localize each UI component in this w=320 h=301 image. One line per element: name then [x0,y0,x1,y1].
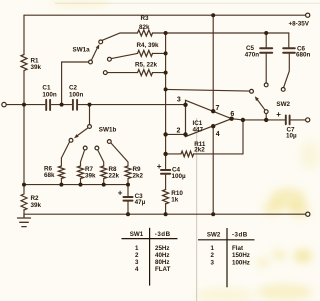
terminal +8-35V [306,13,310,17]
wire C6 bottom lead to SW2 contact [284,54,290,88]
svg-text:C2: C2 [69,85,78,92]
svg-text:100n: 100n [69,92,84,99]
node SW2 / output [264,118,268,122]
svg-text:22k: 22k [109,172,120,179]
svg-text:100µ: 100µ [172,173,187,180]
wire R1 to input line [23,71,25,105]
capacitor C4 100u top lead [165,154,167,169]
svg-text:SW1: SW1 [130,231,144,238]
node R4 / bus [164,51,168,55]
SW1b contact 1 [69,138,73,142]
node rail / R10 [164,212,168,216]
wire R7 bottom lead [80,179,82,185]
wire R6 bottom lead [60,179,62,185]
resistor R4 39k [138,50,153,56]
node pin2 [183,132,187,136]
capacitor C6 680n plates [283,48,295,53]
svg-text:2k2: 2k2 [133,172,144,179]
wire SW1b contact1 to R6 [61,142,69,166]
node input / R1 [22,103,26,107]
terminal output [306,118,310,122]
wire R9 bottom lead [127,179,129,185]
svg-text:100n: 100n [42,92,57,99]
svg-text:C1: C1 [42,85,51,92]
svg-text:R5, 22k: R5, 22k [135,61,158,68]
wire R11 feedback leads [166,120,243,154]
capacitor C3 47u top lead [127,185,129,196]
svg-text:R4, 39k: R4, 39k [137,42,160,49]
svg-text:3: 3 [135,259,139,266]
SW1b contact 2 [83,146,87,150]
svg-text:10µ: 10µ [286,133,297,140]
scan crease (faint vertical line) [196,118,198,301]
node input / SW1a [60,103,64,107]
wire C4 to R10 [165,175,167,190]
wire SW1a contact2 to R4 [111,53,137,58]
wire R2 bottom lead to ground rail [23,210,25,215]
svg-text:82k: 82k [139,24,150,31]
node C5 tap [264,31,268,35]
SW2 pole contact [264,110,268,114]
node R11 / output [241,118,245,122]
resistor R3 82k [138,30,153,36]
capacitor C1 100n [46,100,50,110]
node R5 / bus [164,71,168,75]
svg-text:R3: R3 [141,15,150,22]
switch SW2 arm [257,99,265,110]
svg-text:39k: 39k [31,202,42,209]
wire R3 to bus [153,32,166,34]
switch arrowheads [74,44,259,138]
terminal ground [306,212,310,216]
wire C5 bottom lead to SW2 contact [265,54,267,83]
svg-text:1k: 1k [171,197,179,204]
svg-text:SW1a: SW1a [73,47,91,54]
svg-text:SW2: SW2 [207,231,221,238]
node output apex [229,117,233,121]
wire bottom bus [24,184,128,186]
svg-text:2: 2 [211,252,215,259]
wire pin7 from top rail [212,15,214,111]
SW1a arrow [96,44,100,49]
wire SW1b contact4 to R9 [111,143,128,166]
wire R8 bottom lead [103,179,105,185]
wire left vertical rail-to-R1 [23,15,25,54]
op-amp IC1 triangle [186,100,232,136]
wire input junction down to bottom bus [23,105,25,185]
node rail / pin4 [211,212,215,216]
node rail / C3 [126,212,130,216]
resistor R9 2k2 [125,166,131,179]
wire R2 top lead [23,185,25,194]
resistor R6 68k [58,166,64,179]
svg-text:6: 6 [230,111,234,118]
wire SW1a pole drop [62,62,89,105]
svg-text:150Hz: 150Hz [232,252,250,259]
capacitor C4 100u plates [161,170,170,174]
table SW2 [198,228,255,287]
ground symbol [18,214,31,226]
wire op-amp output [232,119,285,120]
table SW1 [122,228,178,286]
node bus / R8 [102,183,106,187]
node pin2 / bus [163,132,167,136]
svg-text:447: 447 [193,127,204,134]
SW1a contact 1 [99,40,103,44]
svg-text:+: + [276,110,281,119]
capacitor C3 47u plates [124,197,133,201]
svg-text:470n: 470n [245,51,260,58]
SW2 contact 2 [264,83,268,87]
svg-text:1: 1 [135,245,139,252]
wire C3 bottom lead [127,202,129,215]
wire 33-line bus to C5/C6 [166,32,289,34]
svg-text:39k: 39k [85,172,96,179]
resistor R2 39k [21,194,27,210]
wire SW1b contact2 to R7 [81,150,85,166]
svg-text:3: 3 [211,260,215,267]
capacitor C7 10u [286,116,290,125]
SW1a pole contact [89,60,93,64]
node R11 / bus [163,152,167,156]
svg-text:7: 7 [216,105,220,112]
capacitor C5 470n top lead [265,33,267,47]
svg-text:Flat: Flat [232,245,243,252]
svg-text:2: 2 [135,252,139,259]
resistor R8 22k [101,166,107,179]
wire pin2 from bus [166,133,186,135]
node bus / R9 / C3 [126,183,130,187]
node bus / R6 [59,183,63,187]
node pin7 [211,109,215,113]
wire pin3 connection [185,104,187,106]
resistor R10 1k [163,190,169,204]
switch SW1b arm [77,128,88,136]
SW1b arrow [74,134,79,138]
SW2 contact 3 [281,88,285,92]
node R3 / bus [164,31,168,35]
SW1b pole contact [88,125,92,129]
wire SW2 pole to output line [265,114,267,120]
svg-text:680n: 680n [296,52,311,59]
svg-text:-3dB: -3dB [155,231,171,238]
node pin4 [211,124,215,128]
resistor R5 22k [138,70,153,76]
SW1b contact 3 [95,146,99,150]
wire R5 to bus [153,72,166,74]
wire top supply rail [24,14,306,16]
svg-text:1: 1 [211,245,215,252]
svg-text:FLAT: FLAT [155,266,171,273]
svg-text:47µ: 47µ [135,199,146,206]
svg-text:25Hz: 25Hz [155,245,169,252]
node pin3 [183,103,187,107]
capacitor C6 680n top lead [288,33,290,47]
wire pin4 to ground rail [212,126,214,214]
svg-text:-3dB: -3dB [232,231,248,238]
capacitor C2 100n [73,100,77,110]
svg-text:SW1b: SW1b [99,127,117,134]
node bus / R2 [22,183,26,187]
svg-text:+: + [157,162,162,171]
svg-text:+8-35V: +8-35V [289,21,310,28]
svg-text:4: 4 [216,131,220,138]
SW2 arrow [255,96,259,101]
node top rail / pin7 [211,13,215,17]
terminal input [2,102,6,106]
wire ground rail [24,213,306,215]
wire SW1a contact1 to R3 [102,33,137,40]
svg-text:100Hz: 100Hz [232,260,250,267]
svg-text:40Hz: 40Hz [155,252,169,259]
svg-text:2: 2 [177,128,181,135]
svg-text:39k: 39k [31,64,42,71]
wire SW1a contact3 to R5 [107,72,137,74]
node input / SW1b [88,103,92,107]
wire SW1b pole drop [89,105,91,125]
SW1a contact 2 [108,57,112,61]
svg-text:80Hz: 80Hz [155,259,169,266]
wire C7 to output terminal [291,119,306,121]
svg-text:2k2: 2k2 [194,146,205,153]
resistor R7 39k [78,166,84,179]
svg-text:+: + [118,188,123,197]
wire R10 bottom lead [165,204,167,215]
wire input line [6,104,185,106]
wire R-bus vertical [165,33,167,154]
svg-text:4: 4 [135,266,139,273]
svg-text:3: 3 [177,96,181,103]
SW1a contact 3 [103,71,107,75]
svg-text:SW2: SW2 [276,101,290,108]
capacitor C5 470n plates [260,48,272,53]
svg-text:68k: 68k [44,172,55,179]
wire SW1b contact3 to R8 [98,150,104,166]
wire bus to SW2 contact [166,89,250,91]
wire R4 to bus [153,52,166,54]
node SW2 feed / bus [164,87,168,91]
node bus / R7 [79,183,83,187]
resistor R11 2k2 [181,151,194,157]
terminals and switch contacts [2,13,310,216]
SW2 contact 1 [250,89,254,93]
resistor R1 39k [21,55,27,71]
switch SW1a arm [92,48,98,61]
SW1b contact 4 [107,140,111,144]
